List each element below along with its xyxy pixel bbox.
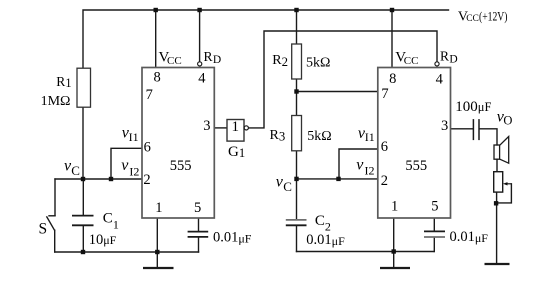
node dot rail-R2 [294,8,298,12]
svg-text:555: 555 [405,158,427,174]
switch S blade [47,217,55,230]
wire potentiometer to ground [496,192,498,263]
svg-text:0.01μF: 0.01μF [450,229,489,245]
capacitor 0.01uF at pin5 U1 [188,232,209,237]
wire bottom-left ground rail [55,251,199,253]
wire pot wiper return [498,184,512,203]
svg-text:CC: CC [466,14,479,24]
wire pin7 U2 line [297,91,378,93]
svg-text:0.01μF: 0.01μF [306,232,345,248]
svg-text:v: v [121,157,129,174]
node dot bottom C1 [81,250,85,254]
capacitor C2 plates [286,220,307,225]
svg-text:O: O [503,113,512,127]
ground middle [380,267,410,269]
svg-text:7: 7 [146,87,153,103]
svg-text:R2: R2 [272,53,288,69]
svg-text:I2: I2 [129,164,139,178]
svg-text:4: 4 [436,71,444,87]
svg-text:CC: CC [404,55,419,67]
ground right [485,263,510,265]
node dot vC right [294,177,298,181]
svg-text:10μF: 10μF [89,232,117,248]
svg-text:R3: R3 [270,128,286,144]
node dot R2-R3-pin7 [294,89,298,93]
svg-text:3: 3 [441,118,448,134]
switch S contact tick [49,215,55,217]
svg-text:6: 6 [144,140,151,156]
node dot vC-R1C1 [81,177,85,181]
wire R3 bottom lead [296,151,298,179]
wire pin8 U1 to rail [155,10,157,68]
svg-text:G1: G1 [228,144,245,160]
potentiometer wiper arrow [506,183,512,185]
svg-text:5kΩ: 5kΩ [306,56,330,71]
wire pin6 U2 tie [339,149,378,179]
gate G1 output bubble [244,126,248,130]
svg-text:CC: CC [167,55,182,67]
wire pin4 U1 (RD) to rail [199,10,201,61]
node dot rail-VCC2 [390,8,394,12]
svg-text:1: 1 [155,200,162,216]
svg-text:3: 3 [203,118,210,134]
svg-text:v: v [356,156,364,173]
wire G1 output to RD of U2 [248,31,437,128]
node dot rail-VCC1 [154,8,158,12]
svg-text:5kΩ: 5kΩ [307,129,331,144]
svg-text:5: 5 [194,200,201,216]
speaker [494,137,509,164]
gate G1 inverter box [227,120,244,142]
wire bottom-right ground rail [297,251,435,253]
ground left [143,267,174,269]
wire pin1 U2 to ground [393,218,395,267]
wire R1 bottom lead [82,107,84,179]
wire pin5 U1 cap leads [198,218,200,231]
svg-text:8: 8 [389,71,396,87]
capacitor 0.01uF at pin5 U2 [424,231,445,237]
wire switch S top branch [54,179,56,216]
svg-text:7: 7 [381,86,388,102]
op-amp U2 555 timer body [378,68,451,219]
wire pin6 U1 tie [111,148,142,179]
wire R2 bottom / R3 top / pin7 node [296,79,298,116]
op-amp U1 555 timer body [142,68,214,219]
svg-text:C: C [71,163,80,178]
svg-text:1: 1 [391,198,398,214]
wire vC node line (left) [55,178,142,180]
svg-text:R: R [440,48,449,63]
wire C1 bottom lead [82,226,84,253]
wire +12V top rail [83,10,449,68]
wire pin5 U2 cap leads [433,218,435,231]
capacitor 100uF coupling plates [473,119,479,140]
reset bubble RD U2 [435,62,439,66]
svg-text:D: D [213,54,221,66]
svg-text:1: 1 [232,119,240,135]
svg-text:1MΩ: 1MΩ [41,94,71,109]
svg-text:2: 2 [381,173,388,189]
capacitor C1 plates [72,216,94,226]
wire switch S bottom branch [54,230,56,252]
node dot vC-pin6 tie right [336,177,340,181]
wire C2 bottom lead [296,226,298,252]
svg-text:R1: R1 [56,74,71,90]
wire C2 top lead [296,179,298,219]
wire pin1 U1 to ground [156,218,158,267]
svg-text:I1: I1 [129,130,139,144]
wire pin3 U2 to coupling cap [451,128,473,130]
wire pin3 U1 to G1 [214,127,227,129]
resistor R3 [292,116,302,151]
node dot bottom pin1 U2 [392,249,396,253]
svg-text:R: R [204,49,213,64]
svg-text:(+12V): (+12V) [479,10,508,24]
svg-text:6: 6 [381,139,388,155]
wire speaker to potentiometer [496,159,498,172]
resistor R2 [292,44,302,79]
svg-text:I1: I1 [365,130,375,144]
wire R2 top lead to rail [296,10,298,44]
wire pin8 U2 to rail [391,10,393,68]
potentiometer [494,172,503,192]
reset bubble RD U1 [198,62,202,66]
svg-text:555: 555 [170,158,192,174]
svg-text:8: 8 [154,70,161,86]
wire C1 top lead [82,179,84,215]
svg-text:I2: I2 [365,164,375,178]
svg-text:0.01μF: 0.01μF [213,230,252,246]
svg-text:C: C [283,179,292,194]
wire vC node line (right) [297,178,378,180]
svg-text:100μF: 100μF [455,99,491,115]
wire coupling cap to speaker [480,129,497,145]
svg-text:D: D [449,53,457,65]
svg-text:S: S [39,221,48,238]
node dot bottom pin1 U1 [155,250,159,254]
svg-text:2: 2 [143,172,150,188]
svg-text:5: 5 [431,198,438,214]
resistor R1 [77,68,91,107]
node dot pot wiper [494,201,498,205]
svg-text:4: 4 [198,71,206,87]
node dot vC-pin6 tie [109,177,113,181]
node dot rail-RD1 [197,8,201,12]
